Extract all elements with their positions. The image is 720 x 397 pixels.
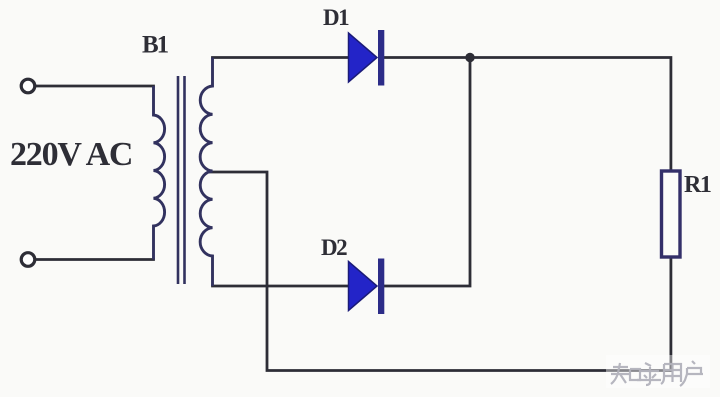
svg-text:B1: B1: [142, 32, 169, 59]
svg-text:D2: D2: [321, 235, 347, 260]
svg-text:220V AC: 220V AC: [10, 136, 132, 173]
svg-text:D1: D1: [323, 5, 349, 30]
svg-text:R1: R1: [684, 172, 711, 198]
